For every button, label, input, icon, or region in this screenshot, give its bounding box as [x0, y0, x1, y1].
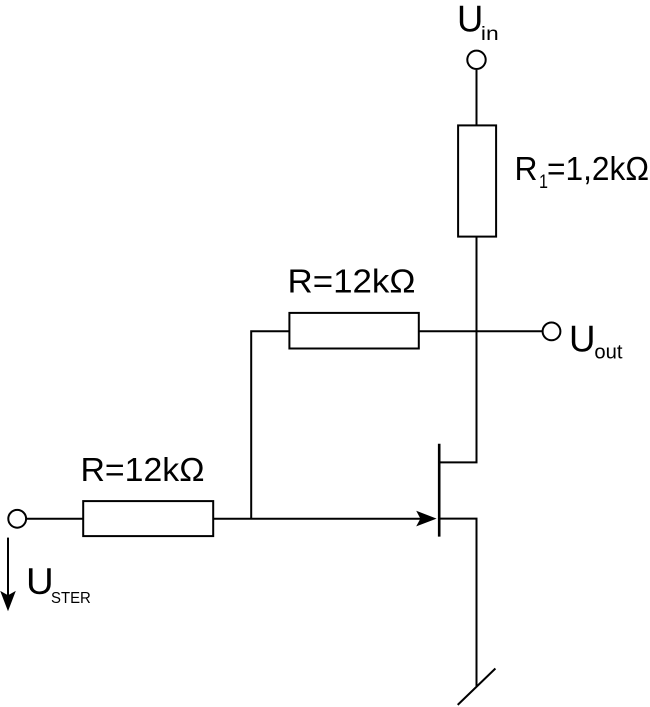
transistor Q1 source lead	[440, 519, 476, 687]
wire feedback resistor left lead down to gate line	[251, 331, 289, 519]
wire R1 to drain elbow	[440, 237, 476, 463]
resistor R1	[458, 125, 496, 236]
arrowhead gate	[416, 511, 436, 527]
wire input terminal to gate resistor	[27, 518, 83, 520]
arrow U_STER	[0, 538, 16, 612]
svg-text:R=12kΩ: R=12kΩ	[81, 451, 205, 488]
wire U_in terminal to R1	[476, 70, 478, 125]
svg-text:out: out	[594, 342, 623, 364]
resistor R gate	[83, 501, 213, 536]
svg-text:in: in	[481, 24, 499, 45]
label R1=1,2kOhm	[515, 150, 650, 193]
wire gate resistor to transistor gate	[213, 518, 431, 520]
terminal U_in	[467, 51, 485, 69]
terminal input	[8, 510, 26, 528]
transistor Q1 bar	[438, 444, 441, 537]
svg-text:U: U	[457, 0, 483, 40]
svg-text:U: U	[569, 319, 596, 360]
label U_out	[569, 319, 623, 364]
wire feedback resistor right lead to U_out terminal	[419, 330, 542, 332]
continuation slash	[458, 669, 496, 705]
svg-text:R=12kΩ: R=12kΩ	[288, 262, 416, 299]
svg-text:R: R	[515, 150, 538, 187]
svg-text:=1,2kΩ: =1,2kΩ	[547, 150, 649, 187]
svg-text:U: U	[26, 561, 54, 602]
resistor R feedback	[289, 313, 418, 349]
label U_in	[457, 0, 499, 45]
label U_STER	[26, 561, 91, 607]
terminal U_out	[543, 323, 561, 341]
svg-text:STER: STER	[51, 590, 91, 607]
